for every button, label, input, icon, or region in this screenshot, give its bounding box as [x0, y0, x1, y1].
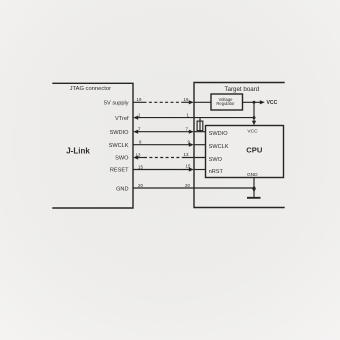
arrowhead: SWO into J-Link — [133, 155, 138, 159]
wire: SWO (pin 13), dashed — [138, 157, 145, 159]
svg-text:SWO: SWO — [115, 156, 129, 162]
arrowhead: SWDIO into J-Link — [133, 130, 138, 134]
arrowhead: down on ground wire — [252, 188, 256, 192]
svg-text:VCC: VCC — [267, 100, 278, 106]
arrowhead: RESET into target board — [189, 167, 194, 171]
svg-text:19: 19 — [137, 97, 142, 102]
wire: GND (pin 20) — [133, 187, 254, 189]
svg-text:JTAG connector: JTAG connector — [70, 86, 112, 92]
wire: VTref (pin 1) to VCC node — [138, 117, 255, 119]
junction dot: GND joins ground line — [253, 187, 256, 190]
svg-text:Regulator: Regulator — [216, 101, 235, 106]
svg-text:SWO: SWO — [209, 157, 223, 163]
wire: 5V supply (pin 19) J-Link to target board, dashed — [133, 101, 144, 103]
wire: SWCLK (pin 9) — [133, 144, 190, 146]
wire: RESET (pin 15) — [133, 169, 190, 171]
svg-text:GND: GND — [247, 172, 258, 178]
resistor R1 (SWDIO pull-up) — [197, 118, 203, 132]
arrowhead: 5V supply into target board — [189, 100, 194, 104]
voltage regulator U1 box — [211, 94, 243, 110]
arrowhead: down into CPU VCC — [252, 121, 256, 126]
arrowhead: VCC net — [260, 100, 265, 104]
junction dot: VTref joins VCC line — [253, 116, 256, 119]
svg-text:19: 19 — [184, 97, 189, 102]
svg-text:13: 13 — [136, 152, 141, 157]
svg-text:SWDIO: SWDIO — [209, 131, 229, 137]
svg-text:13: 13 — [184, 152, 189, 157]
svg-text:SWCLK: SWCLK — [209, 144, 229, 150]
svg-text:VTref: VTref — [115, 116, 129, 122]
svg-text:20: 20 — [138, 183, 143, 188]
J-Link JTAG connector box (open left side) — [53, 83, 133, 208]
svg-text:5V supply: 5V supply — [104, 101, 129, 107]
wire: VCC node down to CPU VCC pin — [253, 102, 255, 121]
arrowhead: SWCLK into target board — [189, 143, 194, 147]
arrowhead: SWDIO into target board — [189, 130, 194, 134]
ground symbol — [247, 197, 261, 199]
svg-text:J-Link: J-Link — [66, 147, 90, 156]
svg-text:15: 15 — [138, 164, 143, 169]
Target board box (open right side) — [194, 83, 284, 208]
svg-text:15: 15 — [186, 163, 191, 168]
svg-text:SWDIO: SWDIO — [110, 130, 130, 136]
wire: CPU GND down to ground — [253, 178, 255, 198]
svg-text:SWCLK: SWCLK — [109, 143, 129, 149]
wire: SWDIO (pin 7) — [138, 131, 190, 133]
junction dot: VCC node — [253, 101, 256, 104]
svg-text:CPU: CPU — [246, 146, 263, 155]
svg-text:VCC: VCC — [247, 129, 258, 135]
svg-text:20: 20 — [185, 183, 190, 188]
svg-text:RESET: RESET — [110, 168, 129, 174]
svg-text:GND: GND — [116, 187, 128, 193]
svg-text:nRST: nRST — [209, 169, 224, 175]
arrowhead: VTref into J-Link — [133, 116, 138, 120]
svg-text:Target board: Target board — [224, 86, 259, 93]
wire: voltage regulator output to VCC node — [243, 101, 261, 103]
CPU U2 box — [206, 126, 284, 178]
